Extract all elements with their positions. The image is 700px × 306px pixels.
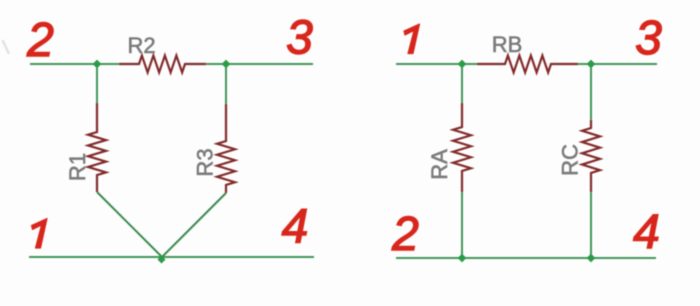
- svg-text:R3: R3: [193, 148, 218, 176]
- svg-text:RC: RC: [558, 144, 583, 176]
- svg-text:3: 3: [286, 12, 313, 65]
- svg-text:RB: RB: [492, 32, 523, 57]
- svg-text:4: 4: [282, 201, 309, 254]
- svg-text:R2: R2: [127, 33, 155, 58]
- svg-text:R1: R1: [65, 153, 90, 181]
- svg-text:RA: RA: [427, 149, 452, 180]
- svg-text:4: 4: [633, 206, 660, 259]
- svg-text:2: 2: [391, 208, 419, 261]
- svg-text:2: 2: [26, 14, 54, 67]
- svg-text:3: 3: [635, 12, 662, 65]
